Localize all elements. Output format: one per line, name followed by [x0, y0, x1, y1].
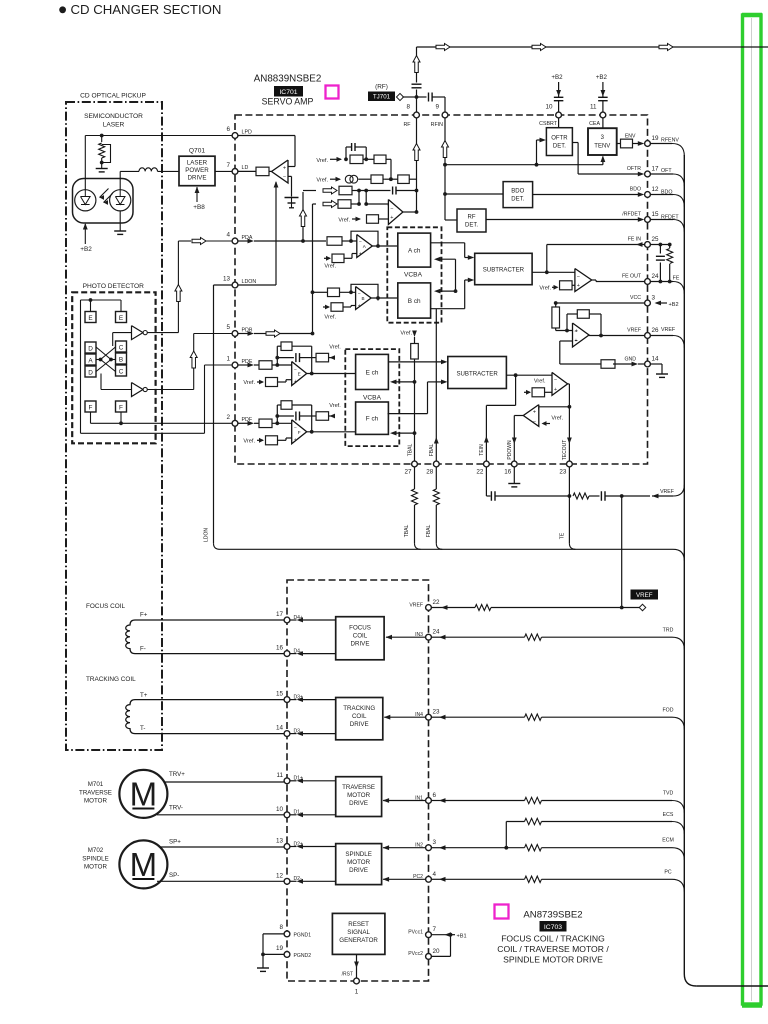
svg-text:+B2: +B2	[80, 246, 92, 253]
svg-text:3: 3	[652, 295, 656, 302]
svg-text:MOTOR: MOTOR	[84, 798, 107, 805]
wire RFDET to bus	[650, 219, 673, 221]
svg-text:22: 22	[433, 599, 441, 606]
flow arrow PDA into pin 4	[192, 238, 206, 245]
ground below LPD resistor	[101, 163, 103, 169]
svg-text:−: −	[294, 425, 297, 431]
resistor LD drive	[256, 167, 269, 176]
svg-text:M702: M702	[88, 847, 104, 854]
feedback resistor E	[276, 346, 278, 365]
svg-text:TE: TE	[560, 532, 566, 539]
resistor ECS	[525, 818, 542, 824]
svg-text:PDE: PDE	[242, 359, 253, 365]
flow arrow PDB	[266, 330, 280, 337]
resistor PC	[525, 876, 542, 882]
capacitor RF row3 to output	[392, 187, 394, 195]
svg-text:ENV: ENV	[625, 134, 636, 140]
svg-text:LDON: LDON	[204, 528, 210, 542]
pin 22 VREF	[426, 605, 432, 611]
wire FE OUT external to bus	[650, 281, 673, 283]
flow arrow RF up to bus	[413, 56, 420, 73]
+B2 arrow into pin 3	[656, 302, 667, 304]
arrow Vref RF amp	[352, 218, 360, 220]
wire pin22 external cap	[485, 467, 487, 496]
wire RFIN pin9 down	[444, 118, 446, 220]
block TRAVERSE MOTOR DRIVE	[336, 777, 382, 817]
laser diode D2 photodiode	[110, 190, 131, 211]
FBAL control vertical	[435, 309, 437, 461]
svg-text:B ch: B ch	[408, 298, 421, 305]
svg-text:PVcc1: PVcc1	[408, 930, 423, 936]
wire FE IN pin25 into IC	[547, 244, 645, 246]
svg-text:TRAVERSE: TRAVERSE	[342, 784, 375, 791]
svg-text:TRAVERSE: TRAVERSE	[79, 789, 112, 796]
svg-text:+: +	[390, 215, 393, 221]
wire RFIN to RF DET	[445, 219, 457, 221]
wire E ch out to subtracter2	[388, 361, 441, 363]
svg-text:PVcc2: PVcc2	[408, 951, 423, 957]
svg-text:T+: T+	[140, 692, 148, 699]
svg-text:−: −	[390, 206, 393, 212]
IC701 servo amp dashed boundary	[235, 115, 648, 464]
svg-text:PDF: PDF	[242, 417, 253, 423]
wire reset generator to /RST pin 1	[356, 954, 358, 978]
svg-text:FOCUS: FOCUS	[349, 625, 371, 632]
page fold line	[751, 18, 753, 1001]
svg-text:D: D	[88, 346, 93, 353]
svg-text:BDO: BDO	[511, 189, 524, 195]
svg-text:E: E	[88, 315, 92, 322]
wire RF feedback down	[390, 159, 392, 179]
resistor VCC to Vref amp	[552, 307, 560, 328]
block BDO DET	[503, 182, 532, 208]
pin 17 OFT	[645, 171, 651, 177]
wire IN3 to focus drive	[386, 636, 426, 638]
wire pin 23 down	[568, 467, 570, 496]
pin 16 D4-	[284, 651, 290, 657]
wire PVcc1 to +B1	[431, 934, 450, 936]
test point diamond VREF	[639, 604, 646, 611]
svg-text:24: 24	[433, 629, 441, 636]
flow arrow PDA tap	[300, 210, 307, 227]
svg-text:M701: M701	[88, 781, 104, 788]
svg-text:FE: FE	[673, 276, 680, 282]
focus coil	[126, 620, 152, 654]
wire ECS branch down to ECM	[505, 822, 507, 848]
+B2 supply arrow into laser	[84, 224, 86, 244]
pin 8 RF	[414, 112, 420, 118]
svg-text:SUBTRACTER: SUBTRACTER	[483, 267, 525, 274]
svg-text:12: 12	[276, 872, 284, 879]
svg-text:MOTOR: MOTOR	[84, 864, 107, 871]
wire F amp out	[307, 431, 356, 433]
svg-text:Vref.: Vref.	[539, 286, 551, 292]
wire spindle drive to D2-	[299, 880, 336, 882]
svg-text:T-: T-	[140, 725, 146, 732]
flow arrow up PDA riser	[175, 285, 182, 302]
wire PVcc2 to +B1 node	[431, 955, 450, 957]
svg-text:COIL / TRAVERSE MOTOR /: COIL / TRAVERSE MOTOR /	[497, 944, 609, 954]
svg-text:PC: PC	[664, 870, 671, 876]
pin 15 D3+	[284, 697, 290, 703]
block SPINDLE MOTOR DRIVE	[336, 844, 382, 885]
svg-text:SP-: SP-	[169, 872, 179, 879]
pin 14 GND	[645, 361, 651, 367]
ground at pin 16	[513, 467, 515, 483]
wire SP- to pin 12	[157, 880, 284, 882]
summing node verticals	[358, 191, 360, 205]
svg-text:COIL: COIL	[353, 633, 368, 640]
resistor RF feedback 1	[350, 155, 363, 164]
wire RFENV to bus	[650, 143, 672, 145]
svg-text:7: 7	[433, 926, 437, 933]
svg-text:DET.: DET.	[511, 197, 524, 203]
buffer amp sum B+D	[132, 383, 144, 397]
wire focus drive to D4+	[299, 619, 336, 621]
photodetector segment F1	[85, 401, 96, 412]
capacitor on RF line above pin 8	[411, 83, 422, 90]
svg-text:7: 7	[226, 162, 230, 169]
wire branch up to OFTR DET	[536, 140, 538, 165]
arrow Vref E amp	[257, 381, 263, 383]
svg-text:TENV: TENV	[594, 144, 610, 150]
svg-text:16: 16	[504, 469, 512, 476]
svg-text:Vref.: Vref.	[534, 378, 546, 384]
svg-text:−: −	[577, 274, 580, 280]
feedback loop B amp	[351, 284, 378, 300]
svg-text:Vref.: Vref.	[243, 380, 255, 386]
svg-text:+B8: +B8	[193, 204, 205, 211]
capacitor FE external	[659, 245, 661, 254]
svg-text:24: 24	[652, 273, 660, 280]
resistor TBAL to Vref	[411, 344, 419, 360]
svg-text:14: 14	[276, 725, 284, 732]
block F ch	[356, 402, 389, 434]
arrow Vref PDOWN	[544, 423, 550, 425]
chip label TJ701	[368, 92, 395, 102]
svg-text:12: 12	[652, 186, 660, 193]
svg-text:PDB: PDB	[242, 327, 253, 333]
pin 6 LPD	[232, 133, 238, 139]
svg-text:CD OPTICAL PICKUP: CD OPTICAL PICKUP	[80, 93, 146, 100]
svg-text:14: 14	[652, 356, 660, 363]
svg-text:−: −	[554, 378, 557, 384]
svg-text:E: E	[298, 372, 301, 377]
svg-text:TRACKING: TRACKING	[343, 705, 375, 712]
feedback loop A amp	[351, 231, 378, 247]
svg-text:(RF): (RF)	[375, 84, 388, 91]
wire B amp out to B ch	[371, 297, 398, 299]
svg-text:6: 6	[226, 126, 230, 133]
wire PDF into IC	[238, 422, 248, 424]
svg-text:/RFDET: /RFDET	[622, 212, 642, 218]
resistor Vref FE	[560, 281, 573, 290]
wire PC2 to spindle drive	[383, 878, 426, 880]
capacitor CSBRT to +B2	[558, 101, 560, 112]
pin 11 CEA	[600, 112, 606, 118]
svg-text:22: 22	[476, 469, 484, 476]
op-amp E	[292, 362, 307, 386]
svg-text:1: 1	[355, 989, 359, 996]
op-amp VREF buffer	[573, 323, 590, 347]
+B8 supply arrow into Q701	[196, 187, 198, 202]
pin 10 D1-	[284, 812, 290, 818]
pin 27 TBAL	[412, 461, 418, 467]
svg-text:−: −	[294, 367, 297, 373]
wire E segments to PDE pin 1	[90, 300, 92, 312]
pin 8 PGND1	[284, 931, 290, 937]
op-amp U-LD laser drive	[272, 160, 289, 183]
op-amp PDOWN comparator	[523, 405, 539, 427]
VCBA gain control wires A/B	[455, 259, 457, 291]
svg-text:ECM: ECM	[662, 838, 674, 844]
capacitor CEA to +B2	[602, 101, 604, 112]
svg-text:DET.: DET.	[553, 144, 566, 150]
motor M701	[119, 770, 167, 818]
wire TBAL external resistor	[414, 467, 416, 489]
svg-text:−: −	[575, 339, 578, 345]
svg-text:6: 6	[433, 792, 437, 799]
svg-text:13: 13	[223, 276, 231, 283]
svg-text:B: B	[362, 296, 365, 301]
resistor on LPD line to ground	[101, 136, 103, 143]
wire VREF from bus	[622, 495, 650, 497]
svg-text:CSBRT: CSBRT	[539, 121, 558, 127]
svg-text:+: +	[294, 437, 297, 443]
wire FE IN external	[650, 244, 669, 246]
wire A ch out to subtracter1	[431, 242, 465, 244]
arrow Vref F amp	[257, 439, 263, 441]
svg-text:FOCUS COIL: FOCUS COIL	[86, 603, 126, 610]
resistor RF row3	[339, 186, 352, 195]
svg-text:MOTOR: MOTOR	[347, 792, 370, 799]
svg-text:IC703: IC703	[544, 924, 562, 931]
arrow Vref TE amp	[524, 391, 530, 393]
wire subtracter2 output	[506, 374, 552, 376]
svg-text:LPD: LPD	[242, 129, 252, 135]
pin 28 FBAL	[433, 461, 439, 467]
svg-text:OFT: OFT	[661, 168, 672, 174]
pin 4 PDA	[232, 238, 238, 244]
wire PDA tap riser	[302, 192, 304, 241]
svg-text:9: 9	[435, 104, 439, 111]
wire pin7 to LD amp	[238, 170, 256, 172]
wire PDB tap riser	[312, 204, 314, 334]
cross wiring B-D	[111, 359, 116, 361]
svg-text:RF: RF	[403, 122, 411, 128]
wire LDON pin13 to LD amp enable	[238, 284, 276, 286]
wire VREF amp - to GND net	[560, 340, 573, 342]
wire T+ to pin 15	[152, 699, 284, 701]
pin 13 LDON	[232, 282, 238, 288]
arrow Vref down to TBAL resistor	[412, 331, 417, 338]
svg-text:VREF: VREF	[660, 489, 674, 495]
pin 11 D1+	[284, 778, 290, 784]
wire PC line	[431, 878, 441, 880]
resistor TE external	[573, 493, 589, 499]
magenta marker square 2	[495, 905, 509, 919]
feedback resistor F	[276, 405, 278, 423]
wire subtracter1 output	[532, 271, 575, 273]
svg-text:+: +	[577, 283, 580, 289]
wire pin8 above to top bus	[416, 47, 418, 112]
block FOCUS COIL DRIVE	[336, 617, 384, 660]
op-amp TE	[552, 372, 568, 395]
wire tracking drive to D3-	[299, 733, 336, 735]
svg-text:+: +	[359, 252, 362, 258]
wire A amp out to A ch	[372, 245, 398, 247]
svg-text:Q701: Q701	[189, 148, 205, 155]
wire OFT to bus	[650, 173, 673, 175]
photodetector segment A	[85, 354, 96, 365]
svg-text:3: 3	[433, 839, 437, 846]
svg-text:OFTR: OFTR	[627, 166, 641, 172]
wire RF amp output to pin 8	[403, 211, 417, 213]
wire GND net to pin 14	[560, 363, 601, 365]
svg-text:C: C	[119, 345, 124, 352]
TBAL control vertical	[414, 359, 416, 461]
svg-text:CEA: CEA	[589, 121, 600, 127]
svg-text:VREF: VREF	[409, 602, 423, 608]
capacitor RF-RFIN	[428, 93, 430, 102]
wire PDB riser to B amp	[313, 291, 328, 293]
svg-text:PGND1: PGND1	[294, 932, 312, 938]
buffer amp sum A+C	[132, 326, 144, 340]
wire TENV output ENV to pin 19	[617, 143, 621, 145]
flow arrow RF row4	[323, 201, 337, 208]
block TRACKING COIL DRIVE	[336, 698, 383, 740]
svg-text:SUBTRACTER: SUBTRACTER	[456, 370, 498, 377]
svg-text:SPINDLE MOTOR DRIVE: SPINDLE MOTOR DRIVE	[503, 955, 603, 965]
arrow Vref A amp	[324, 257, 330, 259]
wire BDO out to pin 12	[533, 194, 638, 196]
svg-text:4: 4	[226, 232, 230, 239]
ground for photodiode	[119, 211, 121, 231]
wire FOD line	[431, 716, 441, 718]
svg-text:VCBA: VCBA	[404, 272, 423, 279]
pin 24 FE OUT	[645, 279, 651, 285]
pin 6 IN1	[426, 798, 432, 804]
svg-text:28: 28	[426, 469, 434, 476]
wire VREF pin22 line	[431, 607, 450, 609]
svg-text:F+: F+	[140, 612, 148, 619]
block B ch	[398, 283, 431, 318]
pin 4 PC2	[426, 876, 432, 882]
arrow Vref RF feedback	[330, 158, 341, 160]
wire spindle drive to D2+	[299, 846, 336, 848]
svg-text:F: F	[89, 405, 93, 412]
resistor TVD	[525, 797, 542, 803]
svg-text:15: 15	[276, 691, 284, 698]
wire TRV+ to pin 11	[164, 781, 285, 783]
wire F- to pin 16	[152, 653, 284, 655]
pin 17 D4+	[284, 617, 290, 623]
laser diode D1	[75, 190, 96, 211]
svg-text:VREF: VREF	[636, 592, 653, 599]
svg-text:FOCUS COIL / TRACKING: FOCUS COIL / TRACKING	[501, 934, 605, 944]
svg-text:/RST: /RST	[342, 972, 353, 978]
svg-text:GENERATOR: GENERATOR	[339, 937, 378, 944]
svg-text:TJ701: TJ701	[373, 93, 391, 100]
svg-text:Vref.: Vref.	[243, 438, 255, 444]
svg-text:LDON: LDON	[242, 279, 257, 285]
svg-text:SEMICONDUCTOR: SEMICONDUCTOR	[84, 113, 143, 120]
block SUBTRACTER 1	[475, 253, 532, 284]
op-amp FE	[575, 269, 592, 292]
parallel element bracket	[102, 145, 111, 163]
svg-text:PHOTO DETECTOR: PHOTO DETECTOR	[83, 283, 145, 290]
svg-text:M: M	[130, 846, 158, 883]
svg-text:A: A	[88, 358, 93, 365]
svg-text:+: +	[283, 165, 286, 171]
svg-text:AN8739SBE2: AN8739SBE2	[523, 910, 582, 921]
svg-text:TECOUT: TECOUT	[562, 440, 568, 461]
svg-text:FOD: FOD	[663, 708, 674, 714]
flow arrow RF row3	[323, 187, 337, 194]
wire B ch out to subtracter1	[431, 308, 465, 310]
svg-text:Vref.: Vref.	[329, 345, 341, 351]
block RESET SIGNAL GENERATOR	[332, 913, 385, 954]
pin 12 D2-	[284, 878, 290, 884]
op-amp A	[357, 235, 373, 258]
svg-text:ECS: ECS	[663, 812, 674, 818]
wire BDO to bus	[650, 194, 673, 196]
pin 10 CSBRT	[556, 112, 562, 118]
svg-text:TBAL: TBAL	[404, 525, 410, 538]
svg-text:E ch: E ch	[366, 370, 379, 377]
svg-text:−: −	[283, 175, 286, 181]
resistor Vref F	[266, 436, 278, 445]
svg-text:+: +	[575, 329, 578, 335]
flow arrow RF output	[413, 144, 420, 161]
resistor RF row2 b	[398, 175, 410, 184]
wire PDOWN out to pin 16	[514, 415, 523, 417]
pin 7 PVcc1	[426, 932, 432, 938]
svg-text:Vref.: Vref.	[324, 264, 336, 270]
pin 9 RFIN	[442, 112, 448, 118]
junction on LPD line	[100, 134, 104, 138]
svg-text:E: E	[119, 315, 123, 322]
op-amp U-RF	[388, 200, 403, 225]
pin 19 RFENV	[645, 141, 651, 147]
pin 23 TECOUT	[567, 461, 573, 467]
capacitor TEIN external	[490, 491, 492, 501]
Q701 laser power drive box	[179, 156, 215, 186]
svg-text:PDA: PDA	[242, 235, 253, 241]
svg-text:VREF: VREF	[661, 327, 676, 333]
flow arrow on top bus	[532, 44, 546, 51]
wire IN2 to spindle drive	[383, 847, 426, 849]
magenta marker square 1	[326, 86, 339, 99]
svg-text:−: −	[533, 419, 536, 425]
svg-text:TRD: TRD	[663, 628, 674, 634]
bus exit bottom	[684, 974, 696, 986]
wire to RF amp inverting input	[387, 204, 389, 206]
feedback capacitor E	[277, 357, 294, 359]
svg-text:10: 10	[276, 806, 284, 813]
svg-text:SPINDLE: SPINDLE	[345, 851, 371, 858]
wire F+ to pin 17	[152, 619, 284, 621]
arrow into TENV bottom	[602, 157, 604, 165]
svg-text:CD CHANGER SECTION: CD CHANGER SECTION	[71, 2, 222, 17]
wire buffer1 to PDA pin 4	[147, 332, 178, 334]
svg-text:DRIVE: DRIVE	[188, 175, 207, 182]
pin 19 PGND2	[284, 952, 290, 958]
photodetector segment B	[116, 353, 127, 364]
flow arrow on top bus	[436, 44, 450, 51]
bus wire horizontal mid	[220, 548, 674, 550]
block SUBTRACTER 2	[448, 357, 507, 389]
